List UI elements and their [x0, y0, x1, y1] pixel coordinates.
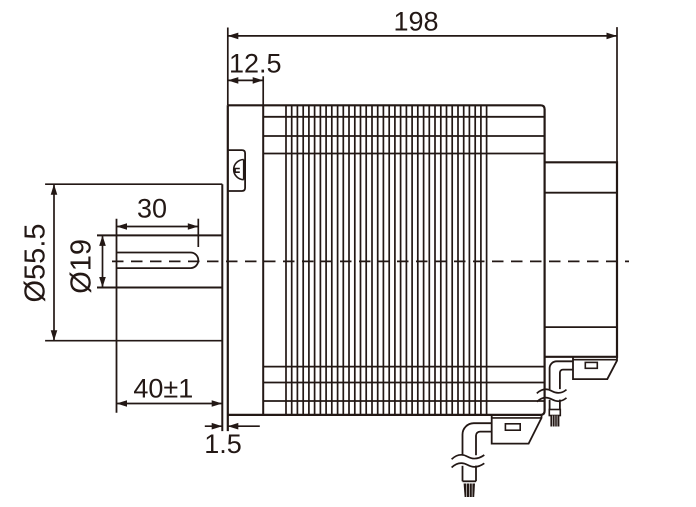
- lower cable strands: [464, 484, 475, 498]
- shaft end line: [116, 219, 118, 413]
- svg-text:Ø19: Ø19: [66, 239, 98, 294]
- upper cable tip: [549, 410, 560, 416]
- cooling fins: [286, 105, 487, 415]
- upper cable elbow: [550, 361, 573, 389]
- mounting boss face line: [221, 184, 223, 431]
- upper connector body: [573, 357, 617, 379]
- dimension 1.5 text: [204, 429, 242, 459]
- dimension 12.5 extension line right: [262, 76, 264, 105]
- body band line 3: [263, 153, 544, 155]
- flange front face line: [227, 105, 229, 431]
- flange side tab: [229, 150, 246, 191]
- dimension 12.5 text: [229, 49, 282, 79]
- lower connector latch: [505, 424, 520, 430]
- dimension 40+-1 text: [133, 374, 193, 404]
- dimension 30 text: [137, 194, 167, 224]
- body band line 4: [263, 366, 544, 368]
- svg-text:198: 198: [393, 7, 438, 37]
- dimension D19 text: [66, 239, 98, 294]
- tab screw detail: [234, 160, 244, 180]
- dimension D19 line: [99, 235, 106, 287]
- lower cable lower section: [463, 466, 477, 482]
- boss top edge / extension: [45, 183, 222, 185]
- upper cable lower section: [550, 400, 560, 410]
- dimension 198 text: [393, 7, 438, 37]
- motor body outline: [228, 105, 545, 415]
- body band line 1: [263, 116, 544, 118]
- rear cap inner line bottom: [545, 326, 617, 328]
- dimension 1.5 line right tail: [228, 423, 260, 430]
- body band line 6: [263, 400, 544, 402]
- dimension 198 extension line right: [616, 27, 618, 162]
- dimension D55.5 text: [20, 224, 52, 303]
- svg-text:30: 30: [137, 194, 167, 224]
- dimension 198 line: [228, 33, 617, 40]
- svg-text:40±1: 40±1: [133, 374, 193, 404]
- boss bottom edge / extension: [45, 340, 222, 342]
- svg-text:Ø55.5: Ø55.5: [20, 224, 52, 303]
- dimension 1.5 line left tail: [205, 423, 222, 430]
- upper cable break squiggle 1: [537, 389, 567, 393]
- lower connector body: [492, 415, 542, 444]
- dimension 40+-1 line: [117, 400, 223, 407]
- dimension 30 extension line right: [197, 219, 199, 247]
- svg-text:1.5: 1.5: [204, 429, 242, 459]
- upper cable strands: [550, 416, 559, 427]
- lower cable break squiggle 2: [452, 463, 485, 467]
- lower cable break squiggle 1: [452, 455, 485, 459]
- upper connector latch: [585, 362, 597, 368]
- flange rear face / body left edge: [262, 105, 264, 415]
- dimension 12.5 line: [228, 77, 263, 84]
- svg-text:12.5: 12.5: [229, 49, 282, 79]
- shaft bottom line: [97, 287, 222, 289]
- rear cap inner line top: [545, 192, 617, 194]
- body band line 5: [263, 382, 544, 384]
- lower cable elbow: [463, 423, 492, 455]
- shaft top line: [97, 234, 222, 236]
- dimension 30 line: [117, 223, 199, 230]
- body band line 2: [263, 135, 544, 137]
- dimension D55.5 line: [51, 184, 58, 341]
- upper cable break squiggle 2: [537, 398, 567, 402]
- centerline: [112, 260, 629, 262]
- dimension 198 extension line left: [227, 28, 229, 106]
- shaft keyway flat: [117, 253, 199, 269]
- rear cap outline: [545, 162, 617, 356]
